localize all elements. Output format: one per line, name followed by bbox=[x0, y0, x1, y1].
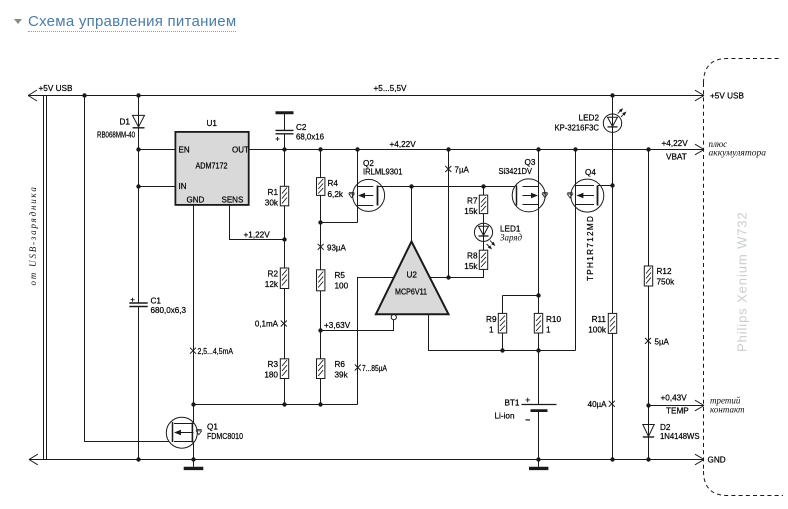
svg-text:680,0x6,3: 680,0x6,3 bbox=[151, 306, 187, 315]
svg-text:100k: 100k bbox=[588, 326, 607, 335]
resistor R4 6,2k bbox=[317, 150, 325, 223]
svg-text:5µA: 5µA bbox=[655, 338, 670, 347]
svg-text:+5...5,5V: +5...5,5V bbox=[374, 84, 408, 93]
svg-text:R8: R8 bbox=[467, 252, 478, 261]
node TEMP labels bbox=[661, 394, 690, 416]
svg-text:1: 1 bbox=[489, 326, 494, 335]
transistor Q3 Si3421DV bbox=[512, 150, 547, 296]
resistor R12 750k bbox=[644, 150, 652, 406]
op-amp regulator U1 ADM7172 bbox=[175, 132, 248, 205]
node VBAT labels right bbox=[662, 139, 767, 162]
svg-text:+1,22V: +1,22V bbox=[244, 231, 271, 240]
svg-text:OUT: OUT bbox=[232, 146, 249, 155]
svg-text:Q4: Q4 bbox=[585, 168, 596, 177]
svg-text:12k: 12k bbox=[265, 280, 279, 289]
battery BT1 bbox=[522, 351, 557, 460]
node LED1 labels bbox=[500, 225, 523, 243]
resistor R1 30k bbox=[280, 150, 288, 240]
node R11 labels bbox=[588, 315, 607, 335]
node R6 labels bbox=[335, 360, 349, 380]
svg-text:0,1mA: 0,1mA bbox=[255, 320, 279, 329]
transistor Q2 IRLML9301 bbox=[349, 150, 385, 223]
svg-text:R10: R10 bbox=[546, 315, 561, 324]
svg-text:100: 100 bbox=[335, 282, 349, 291]
ground flag below Q1 bbox=[184, 460, 204, 469]
node Q2 labels bbox=[363, 159, 403, 177]
node третий контакт label bbox=[710, 396, 745, 415]
node D2 labels bbox=[660, 423, 700, 441]
svg-text:R11: R11 bbox=[592, 315, 607, 324]
node R10 labels bbox=[546, 315, 561, 335]
svg-text:U2: U2 bbox=[407, 271, 418, 280]
wire IN bbox=[139, 186, 176, 188]
node U2 labels bbox=[395, 271, 427, 297]
measure point 40µA bbox=[588, 400, 615, 409]
wire +3,63V to U2 bubble bbox=[321, 320, 394, 331]
node LED2 labels bbox=[555, 114, 600, 133]
svg-text:R2: R2 bbox=[268, 270, 279, 279]
node Q1 labels bbox=[207, 423, 243, 442]
svg-text:Q3: Q3 bbox=[525, 158, 536, 167]
wire U2 plus input column bbox=[429, 150, 448, 278]
svg-text:EN: EN bbox=[179, 146, 190, 155]
svg-text:1N4148WS: 1N4148WS bbox=[660, 432, 700, 441]
transistor Q1 FDMC8010 bbox=[166, 417, 201, 448]
resistor R2 12k bbox=[280, 240, 288, 359]
wire Q2 gate bbox=[321, 222, 358, 224]
svg-text:+5V USB: +5V USB bbox=[39, 84, 73, 93]
svg-text:750k: 750k bbox=[657, 278, 676, 287]
svg-text:1: 1 bbox=[546, 326, 551, 335]
node C2 labels bbox=[296, 123, 324, 142]
svg-text:+4,22V: +4,22V bbox=[662, 139, 689, 148]
measure point 93µA bbox=[318, 244, 347, 253]
svg-text:IN: IN bbox=[179, 182, 187, 191]
svg-text:R6: R6 bbox=[335, 360, 346, 369]
svg-text:контакт: контакт bbox=[710, 405, 745, 415]
svg-text:KP-3216F3C: KP-3216F3C bbox=[555, 124, 600, 133]
svg-text:30k: 30k bbox=[265, 199, 279, 208]
svg-text:7µA: 7µA bbox=[455, 166, 470, 175]
wire TEMP bbox=[649, 400, 705, 411]
svg-text:Li-ion: Li-ion bbox=[494, 412, 514, 421]
ground flag above C2 bbox=[276, 113, 294, 131]
svg-text:+5V USB: +5V USB bbox=[710, 92, 744, 101]
svg-text:LED2: LED2 bbox=[579, 114, 600, 123]
svg-text:D1: D1 bbox=[120, 118, 131, 127]
wire Q1 gate column x=84 bbox=[85, 96, 173, 442]
node R12 labels bbox=[657, 267, 676, 287]
node R8 labels bbox=[464, 252, 478, 272]
capacitor C2 bbox=[276, 130, 294, 149]
capacitor C1 bbox=[129, 298, 147, 307]
transistor Q4 TPH1R712MD bbox=[567, 150, 604, 351]
connector dashed outline bbox=[704, 59, 784, 496]
svg-text:+4,22V: +4,22V bbox=[390, 140, 417, 149]
svg-text:D2: D2 bbox=[660, 423, 671, 432]
svg-text:ADM7172: ADM7172 bbox=[196, 162, 228, 171]
svg-text:15k: 15k bbox=[464, 262, 478, 271]
node Q4 labels bbox=[585, 168, 596, 281]
svg-text:+3,63V: +3,63V bbox=[324, 321, 351, 330]
svg-text:R12: R12 bbox=[657, 267, 672, 276]
svg-text:TPH1R712MD: TPH1R712MD bbox=[586, 215, 595, 281]
svg-text:FDMC8010: FDMC8010 bbox=[207, 432, 243, 441]
svg-text:R1: R1 bbox=[268, 188, 279, 197]
diode D2 bbox=[643, 406, 654, 460]
node R5 labels bbox=[335, 271, 349, 291]
resistor R8 15k bbox=[449, 250, 488, 277]
wire mid rail (Q1 drain) bbox=[194, 404, 358, 406]
wire U1 SENS pin bbox=[230, 205, 285, 240]
node BT1 labels bbox=[494, 399, 519, 421]
svg-text:MCP6V11: MCP6V11 bbox=[395, 288, 427, 297]
svg-text:+0,43V: +0,43V bbox=[661, 394, 688, 403]
svg-text:68,0x16: 68,0x16 bbox=[296, 133, 324, 142]
svg-text:BT1: BT1 bbox=[504, 399, 519, 408]
resistor R7 15k bbox=[479, 187, 487, 214]
resistor R5 100 bbox=[317, 223, 325, 331]
wire U2 minus input bbox=[358, 278, 395, 405]
measure point 0,1mA bbox=[255, 320, 287, 329]
node D1 labels bbox=[97, 118, 135, 140]
LED LED2 bbox=[603, 96, 626, 186]
svg-text:VBAT: VBAT bbox=[666, 153, 687, 162]
svg-text:R5: R5 bbox=[335, 271, 346, 280]
node C1 labels bbox=[151, 297, 187, 316]
svg-text:TEMP: TEMP bbox=[666, 407, 689, 416]
resistor R10 1 bbox=[534, 296, 542, 351]
svg-text:7...85µA: 7...85µA bbox=[362, 364, 388, 373]
LED LED1 bbox=[474, 214, 495, 251]
svg-text:IRLML9301: IRLML9301 bbox=[363, 168, 403, 177]
wire U2 output bbox=[429, 314, 576, 350]
svg-text:6,2k: 6,2k bbox=[328, 190, 344, 199]
svg-text:R3: R3 bbox=[268, 360, 279, 369]
wire U1 GND pin column bbox=[193, 205, 195, 460]
measure point 7...85µA bbox=[355, 364, 388, 373]
node R1 labels bbox=[265, 188, 279, 208]
svg-text:Philips Xenium W732: Philips Xenium W732 bbox=[735, 211, 750, 352]
node R9 labels bbox=[486, 315, 497, 335]
svg-text:2,5...4,5mA: 2,5...4,5mA bbox=[198, 347, 234, 356]
wire U2 top input bbox=[411, 187, 413, 242]
svg-text:R7: R7 bbox=[467, 197, 478, 206]
node R4 labels bbox=[328, 179, 344, 199]
measure point 7µA bbox=[445, 166, 469, 175]
measure point 5µA bbox=[645, 338, 670, 347]
ground flag below BT1 bbox=[529, 460, 548, 469]
svg-text:RB068MM-40: RB068MM-40 bbox=[97, 131, 135, 140]
svg-text:Si3421DV: Si3421DV bbox=[499, 167, 533, 176]
op-amp U2 MCP6V11 bbox=[376, 242, 449, 320]
wire D1/C1 column x=138 bbox=[138, 96, 140, 460]
node R7 labels bbox=[464, 197, 478, 217]
svg-text:R9: R9 bbox=[486, 315, 497, 324]
svg-text:R4: R4 bbox=[328, 179, 339, 188]
node Q3 labels bbox=[499, 158, 536, 176]
wire Q4 drain bbox=[598, 185, 613, 187]
node R3 labels bbox=[264, 360, 278, 380]
wire VBAT +4,22V rail bbox=[249, 144, 704, 155]
resistor R9 1 bbox=[498, 296, 538, 351]
svg-text:аккумулятора: аккумулятора bbox=[709, 148, 767, 158]
measure point 2,5...4,5mA bbox=[190, 347, 234, 356]
svg-text:GND: GND bbox=[708, 456, 726, 465]
svg-text:GND: GND bbox=[187, 196, 205, 205]
svg-text:C1: C1 bbox=[151, 297, 162, 306]
resistor R3 180 bbox=[280, 359, 288, 405]
svg-text:15k: 15k bbox=[464, 207, 478, 216]
diode D1 bbox=[133, 115, 145, 127]
USB charger bus (double line) bbox=[44, 96, 47, 460]
svg-text:40µA: 40µA bbox=[588, 400, 608, 409]
wire EN bbox=[139, 149, 176, 151]
svg-text:C2: C2 bbox=[296, 123, 307, 132]
resistor R6 39k bbox=[317, 331, 325, 405]
wire +5V top rail bbox=[28, 90, 704, 101]
node U1 labels bbox=[179, 119, 250, 205]
wire GND bottom rail bbox=[29, 454, 704, 465]
svg-text:SENS: SENS bbox=[222, 196, 244, 205]
resistor R11 100k bbox=[608, 186, 616, 460]
svg-text:180: 180 bbox=[264, 371, 278, 380]
svg-text:Q1: Q1 bbox=[207, 423, 218, 432]
svg-text:Заряд: Заряд bbox=[500, 233, 523, 243]
svg-text:93µA: 93µA bbox=[327, 244, 347, 253]
svg-text:39k: 39k bbox=[335, 371, 349, 380]
svg-text:U1: U1 bbox=[207, 119, 218, 128]
svg-text:от USB-зарядника: от USB-зарядника bbox=[28, 185, 38, 285]
wire Q2 drain to Q3 gate bbox=[378, 186, 517, 188]
node R2 labels bbox=[265, 270, 279, 290]
